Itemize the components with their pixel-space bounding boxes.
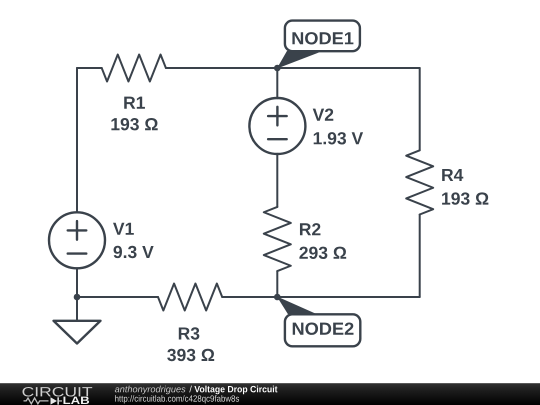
footer author name — [115, 386, 186, 395]
value R1 193 ohm — [111, 118, 157, 130]
wire top horizontal — [166, 67, 420, 69]
wire left rail — [76, 68, 78, 212]
logo resistor squiggle — [24, 398, 49, 404]
footer url — [115, 395, 239, 403]
logo CIRCUIT wordmark — [22, 387, 92, 397]
voltage source V2 — [249, 98, 305, 154]
wire ground stub — [76, 297, 78, 321]
footer separator slash — [189, 386, 192, 393]
value R4 193 ohm — [442, 192, 488, 204]
wire bottom horizontal — [222, 296, 420, 298]
label NODE1 — [292, 32, 353, 44]
wire top-left stub — [77, 67, 102, 69]
footer circuit title — [194, 386, 277, 395]
value R3 393 ohm — [167, 349, 214, 361]
value V1 9.3 V — [114, 246, 154, 258]
wire right rail lower — [419, 215, 421, 298]
resistor R1 — [102, 55, 166, 82]
junction dot node NODE1 — [274, 65, 281, 72]
value V2 1.93 V — [314, 132, 363, 144]
logo diode symbol — [51, 397, 58, 404]
callout pointer NODE2 — [277, 296, 317, 314]
value R2 293 ohm — [299, 247, 346, 259]
callout box NODE2 — [285, 314, 360, 346]
label V2 — [313, 108, 334, 120]
callout box NODE1 — [285, 21, 360, 52]
junction dot node NODE2 — [274, 294, 281, 301]
label V1 — [113, 223, 134, 235]
wire V2 to R2 — [276, 154, 278, 207]
voltage source V1 — [49, 212, 105, 268]
junction dot ground node — [74, 294, 81, 301]
resistor R4 — [406, 150, 433, 214]
callout pointer NODE1 — [277, 51, 320, 69]
label R4 — [442, 169, 463, 181]
label R1 — [124, 97, 145, 109]
resistor R3 — [158, 284, 222, 311]
label R3 — [179, 327, 200, 339]
wire V1 bottom — [76, 268, 78, 297]
wire right rail upper — [419, 68, 421, 150]
label NODE2 — [293, 322, 354, 334]
ground symbol — [54, 321, 101, 344]
wire R2 to node2 — [276, 271, 278, 297]
label R2 — [300, 223, 321, 235]
wire bottom-left — [77, 296, 158, 298]
wire node1 to V2 — [276, 68, 278, 98]
logo LAB wordmark — [63, 397, 89, 404]
resistor R2 — [264, 207, 291, 271]
